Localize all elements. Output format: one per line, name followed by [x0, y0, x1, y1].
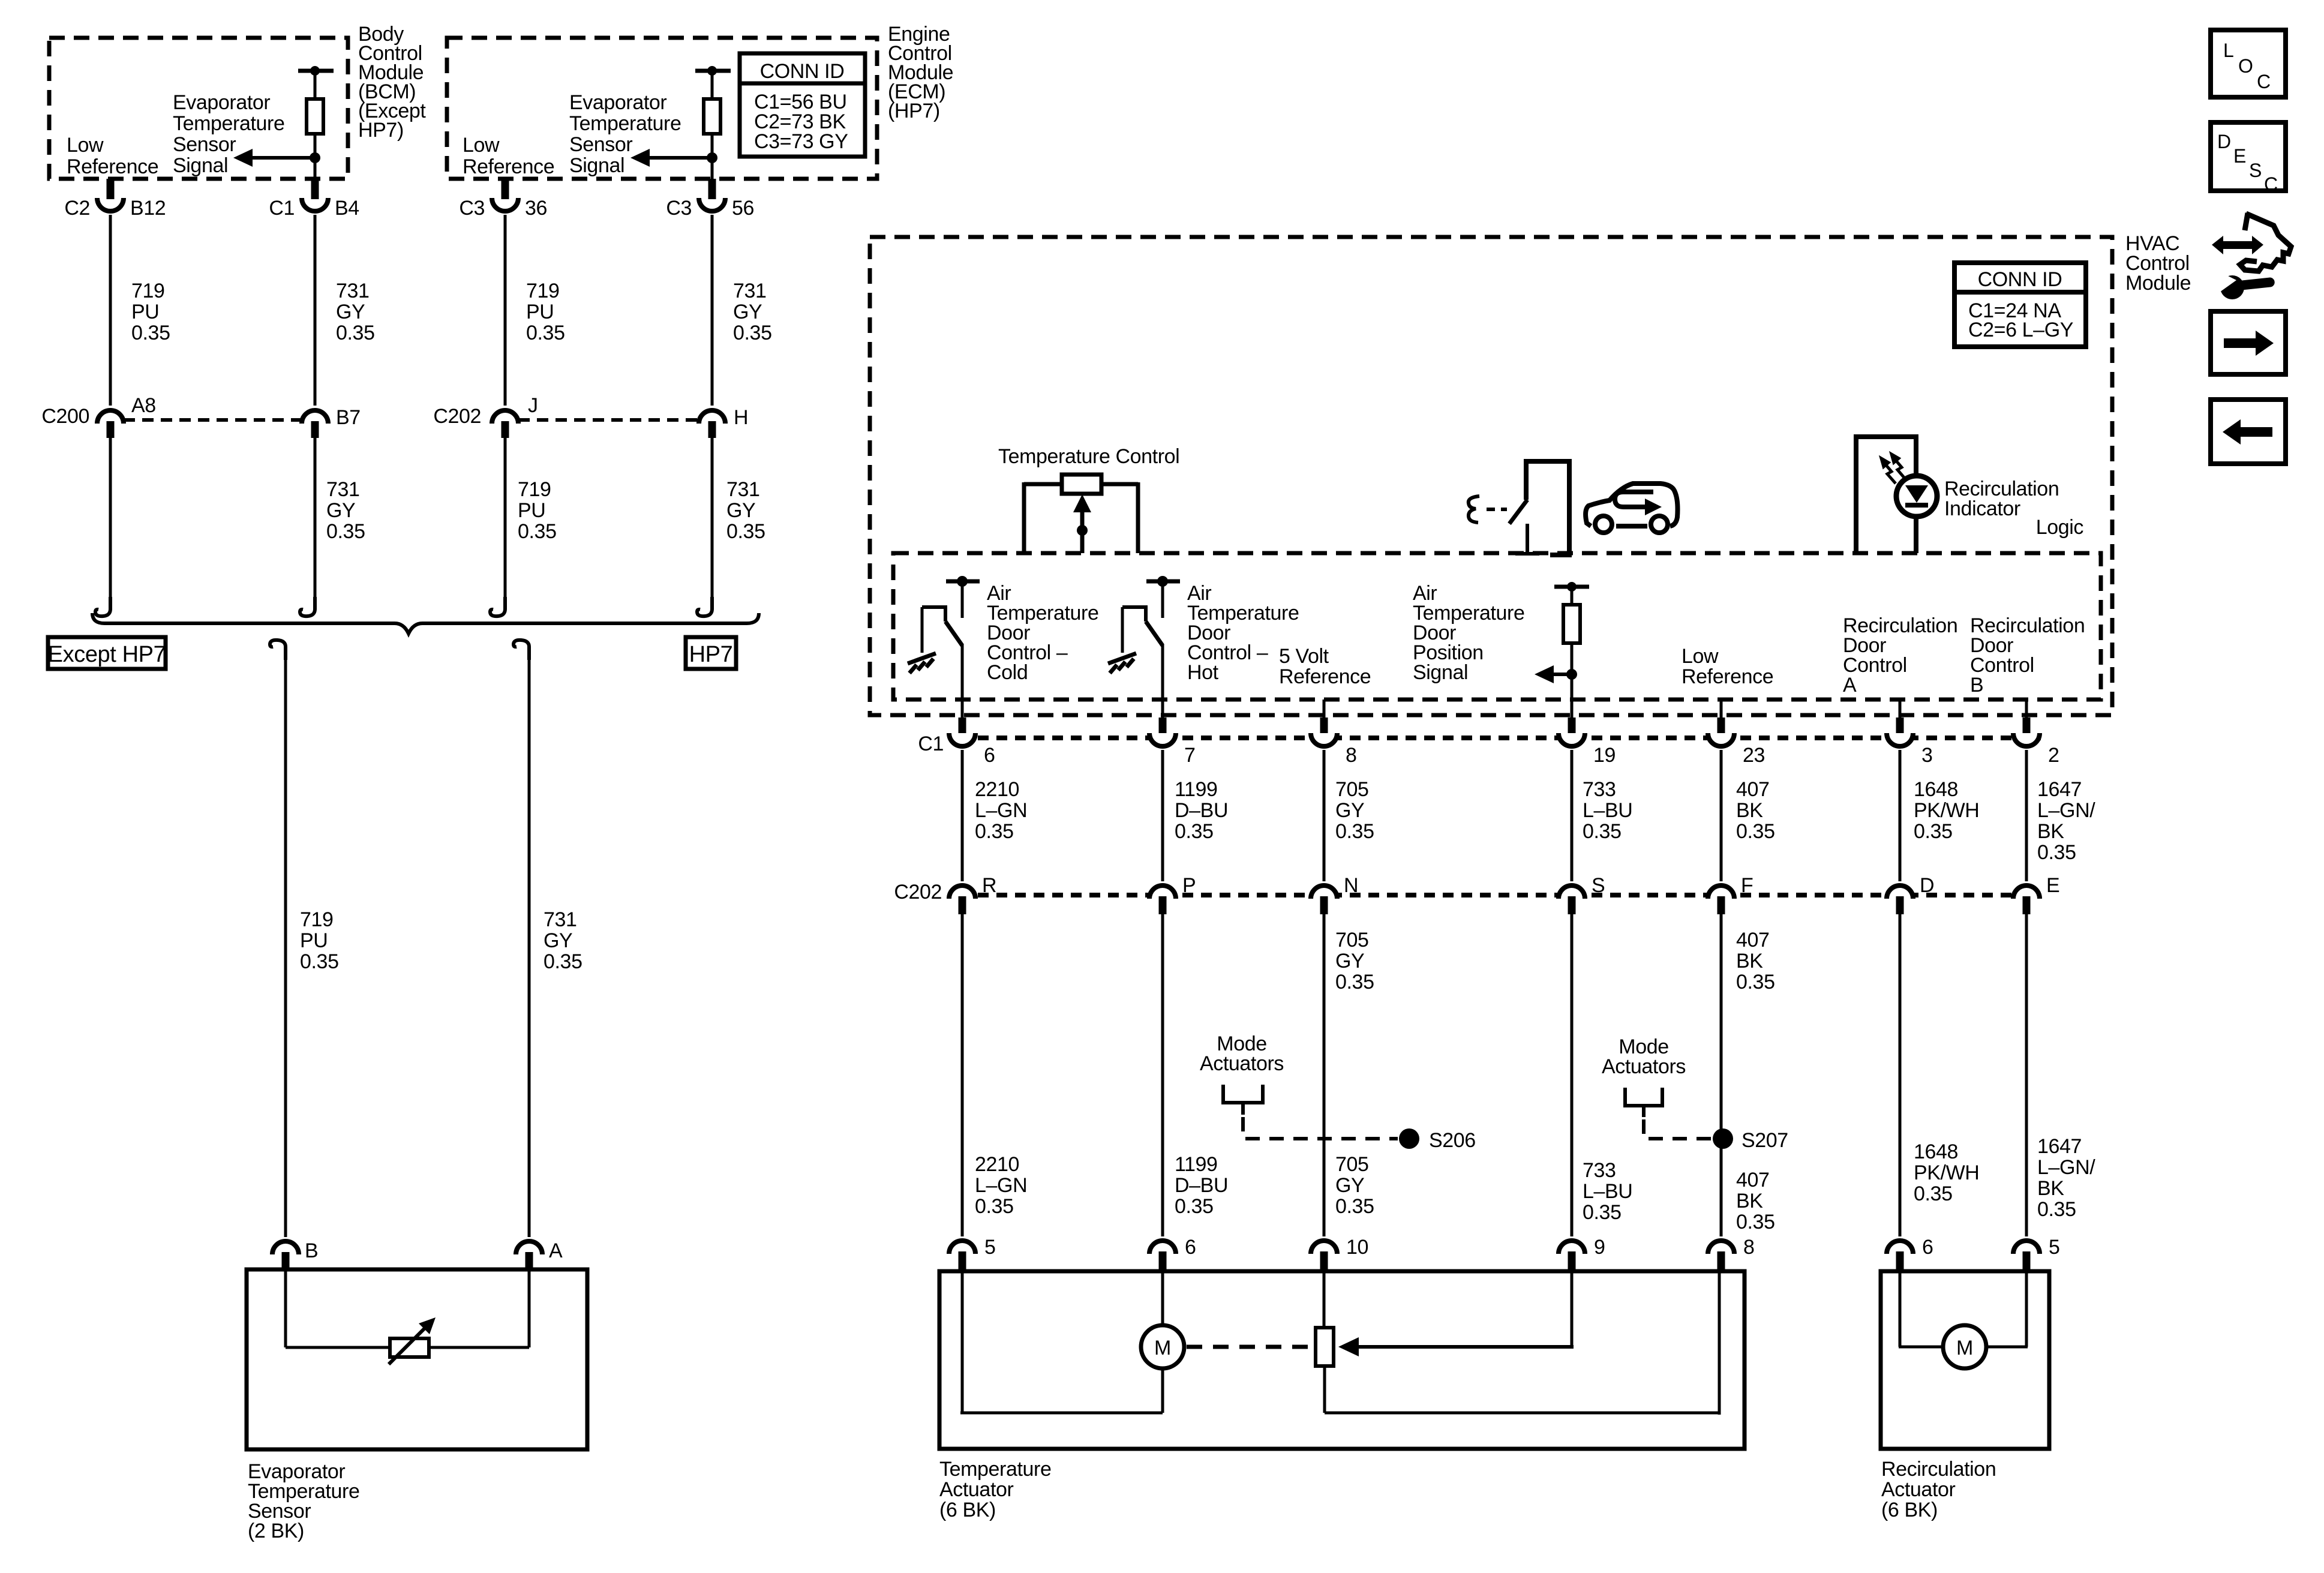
- air temp door control cold switch pole wire to pin: [961, 644, 964, 718]
- svg-text:8: 8: [1743, 1236, 1755, 1259]
- wire start hook (sensor B wire): [270, 640, 286, 660]
- wire temp actuator pin6 to motor: [1161, 1271, 1164, 1325]
- connector C202 pin P: [1149, 885, 1176, 899]
- air temp door control hot switch ground: [1108, 653, 1136, 673]
- connector actuator pin 6: [1887, 1241, 1913, 1254]
- air temp door control hot switch pole wire to pin: [1161, 644, 1164, 718]
- svg-text:5: 5: [2049, 1236, 2060, 1259]
- wire position signal lower lead: [1571, 643, 1574, 718]
- motor M (recirculation actuator): [1943, 1325, 1986, 1368]
- wire from C1 pin 7 to C202: [1161, 750, 1164, 881]
- stub above HVAC C1 pin 6: [959, 718, 966, 733]
- svg-text:Actuators: Actuators: [1602, 1055, 1686, 1078]
- svg-text:B7: B7: [336, 406, 361, 429]
- brace joining Except-HP7 and HP7 wire groups: [92, 613, 759, 634]
- wire 731 GY segment (56 to C202 H): [711, 215, 714, 406]
- connector pin B of sensor: [272, 1241, 299, 1254]
- connector actuator pin 5: [949, 1241, 975, 1254]
- stub below C200/C202 pin B7: [311, 421, 319, 438]
- car icon arrow head: [1645, 499, 1662, 515]
- wire from C1 pin 19 to C202: [1571, 750, 1574, 881]
- air temp door control hot switch fixed contact stem: [1161, 581, 1164, 618]
- air temp door control cold switch ground branch: [921, 607, 924, 653]
- svg-text:S: S: [1592, 874, 1605, 897]
- wire recirc door control A stub: [1899, 700, 1902, 718]
- potentiometer body (Temperature Control): [1062, 475, 1101, 494]
- stub below actuator pin 9: [1568, 1251, 1576, 1271]
- push-button spring symbol: [1469, 496, 1479, 523]
- svg-text:C1: C1: [918, 733, 944, 755]
- wire inside sensor from pin A: [528, 1269, 531, 1347]
- svg-text:CONN ID: CONN ID: [1978, 268, 2062, 291]
- BCM signal junction dot: [310, 152, 320, 163]
- wire BCM resistor top lead: [314, 71, 317, 99]
- svg-text:6: 6: [984, 744, 995, 767]
- air temp door control cold switch blade: [945, 622, 962, 646]
- stub above HVAC C1 pin 3: [1896, 718, 1904, 733]
- svg-text:M: M: [1154, 1337, 1171, 1359]
- svg-text:Logic: Logic: [2036, 516, 2084, 539]
- push-button pole: [1515, 524, 1539, 554]
- svg-text:C202: C202: [433, 405, 481, 428]
- position signal top junction dot: [1567, 582, 1577, 592]
- LOC navigation box: [2211, 30, 2286, 97]
- connector C1 pin 23 (HVAC): [1708, 733, 1734, 746]
- BCM resistor top junction dot: [310, 66, 320, 76]
- svg-text:S206: S206: [1429, 1129, 1476, 1152]
- wire segment below C200 A8: [109, 438, 112, 600]
- svg-text:N: N: [1344, 874, 1358, 897]
- potentiometer wiper arrow: [1073, 494, 1091, 553]
- ECM CONN ID table box: [740, 53, 865, 157]
- ECM signal arrow (to Signal label): [630, 149, 712, 167]
- motor M (temperature actuator): [1141, 1325, 1184, 1368]
- wire from C1 pin 2 to C202: [2025, 750, 2028, 881]
- dashed tap to S207: [1644, 1119, 1712, 1139]
- svg-text:19: 19: [1593, 744, 1616, 767]
- wire from C202 pin N to actuator: [1323, 914, 1326, 1236]
- svg-text:R: R: [982, 874, 996, 897]
- C202 connector row dashed line: [978, 893, 2041, 897]
- wire from C1 pin 6 to C202: [961, 750, 964, 881]
- HP7 boxed label: [686, 637, 736, 669]
- feedback wiper arrow: [1338, 1337, 1574, 1356]
- feedback position sensor element: [1316, 1328, 1334, 1366]
- C202 (left) inline connector dashed line: [518, 418, 699, 422]
- svg-text:S207: S207: [1742, 1129, 1788, 1152]
- svg-text:F: F: [1741, 874, 1753, 897]
- wire recirc actuator to motor left: [1899, 1346, 1944, 1349]
- wire temp actuator pin10 to feedback: [1323, 1271, 1326, 1328]
- stub above connector C3 pin 56 (ECM signal): [708, 179, 716, 199]
- diagnostic tool icon: wrench: [2210, 271, 2275, 299]
- mode actuators bracket 2: [1625, 1088, 1662, 1117]
- wire 731 GY to sensor pin A: [528, 660, 531, 1237]
- connector C1 pin 19 (HVAC): [1559, 733, 1585, 746]
- svg-text:D: D: [1920, 874, 1934, 897]
- recirculation indicator LED frame: [1856, 437, 1916, 553]
- connector C1 pin 2 (HVAC): [2013, 733, 2040, 746]
- stub below C200/C202 pin A8: [107, 421, 115, 438]
- air temp door control cold switch fixed contact stem: [961, 581, 964, 618]
- svg-text:E: E: [2046, 874, 2059, 897]
- splice S206: [1399, 1128, 1419, 1149]
- Body Control Module (BCM) dashed box: [49, 38, 348, 179]
- wire temp actuator pin9 drop: [1571, 1271, 1574, 1347]
- connector C3 pin 36 (ECM low reference): [492, 198, 518, 211]
- stub above connector C1 pin B4 (BCM signal): [311, 179, 319, 199]
- svg-text:10: 10: [1346, 1236, 1368, 1259]
- stub below actuator pin 10: [1320, 1251, 1328, 1271]
- svg-text:C1=56 BUC2=73 BKC3=73 GY: C1=56 BUC2=73 BKC3=73 GY: [754, 91, 848, 153]
- connector C202 pin N: [1311, 885, 1337, 899]
- wire from C1 pin 8 to C202: [1323, 750, 1326, 881]
- svg-text:CONN ID: CONN ID: [760, 60, 845, 83]
- svg-text:H: H: [734, 406, 748, 429]
- BCM resistor top bar: [298, 69, 334, 73]
- svg-text:7: 7: [1184, 744, 1196, 767]
- wire end hook below A8: [95, 597, 110, 616]
- Temperature Actuator box: [939, 1271, 1744, 1449]
- connector actuator pin 10: [1311, 1241, 1337, 1254]
- stub below actuator pin 6: [1159, 1251, 1167, 1271]
- air temp door control hot switch blade: [1146, 622, 1163, 646]
- connector C202 pin F: [1708, 885, 1734, 899]
- svg-text:C200: C200: [41, 405, 89, 428]
- stub below sensor pin B: [282, 1252, 290, 1269]
- connector C3 pin 56 (ECM signal): [699, 198, 725, 211]
- Recirculation Actuator box: [1881, 1271, 2049, 1449]
- wire inside sensor from pin B: [284, 1269, 287, 1347]
- svg-text:Temperature Control: Temperature Control: [998, 445, 1179, 468]
- connector C202 pin S: [1559, 885, 1585, 899]
- svg-text:5: 5: [984, 1236, 996, 1259]
- connector actuator pin 6: [1149, 1241, 1176, 1254]
- svg-text:P: P: [1182, 874, 1196, 897]
- air temp door control hot switch junction dot: [1157, 576, 1168, 587]
- ECM signal junction dot: [707, 152, 717, 163]
- dashed tap to S206: [1243, 1117, 1398, 1139]
- wire recirc actuator pin5 drop: [2025, 1271, 2028, 1347]
- wire sensor internal left: [286, 1346, 391, 1349]
- wiper junction dot: [1077, 525, 1088, 536]
- connector actuator pin 5: [2013, 1241, 2040, 1254]
- Logic dashed box: [893, 553, 2101, 700]
- connector C1 pin 6 (HVAC): [949, 733, 975, 746]
- stub above HVAC C1 pin 23: [1718, 718, 1725, 733]
- svg-text:J: J: [528, 394, 538, 417]
- Except HP7 boxed label: [48, 637, 166, 669]
- wire temp actuator pin5 drop: [961, 1271, 964, 1413]
- thermistor diagonal arrow: [389, 1317, 436, 1364]
- air temp door control cold switch contact hook: [922, 607, 945, 622]
- svg-text:O: O: [2238, 55, 2253, 77]
- wire feedback lower lead: [1323, 1366, 1326, 1413]
- wire from C1 pin 23 to C202: [1720, 750, 1723, 881]
- connector C202 pin E: [2013, 885, 2040, 899]
- connector C202 pin D: [1887, 885, 1913, 899]
- svg-text:6: 6: [1185, 1236, 1196, 1259]
- splice S207: [1713, 1128, 1733, 1149]
- svg-text:C: C: [2257, 71, 2271, 92]
- svg-text:B4: B4: [335, 197, 359, 220]
- stub below actuator pin 5: [2023, 1251, 2031, 1271]
- stub above HVAC C1 pin 7: [1159, 718, 1167, 733]
- HVAC Control Module dashed box: [870, 237, 2112, 715]
- stub below C202 pin P: [1159, 896, 1167, 914]
- wire ECM signal to box edge: [711, 158, 714, 180]
- connector actuator pin 9: [1559, 1241, 1585, 1254]
- air temp door control hot switch contact hook: [1122, 607, 1146, 622]
- svg-text:B12: B12: [130, 197, 166, 220]
- wire recirc actuator motor right: [1986, 1346, 2028, 1349]
- svg-text:HP7: HP7: [689, 642, 733, 667]
- svg-text:6: 6: [1922, 1236, 1933, 1259]
- mode actuators bracket 1: [1223, 1085, 1263, 1115]
- BCM signal arrow (to Signal label): [233, 149, 315, 167]
- wire from C202 pin P to actuator: [1161, 914, 1164, 1236]
- temperature control pot bar left: [1024, 482, 1064, 487]
- svg-text:2: 2: [2048, 744, 2059, 767]
- air temp door control cold switch junction dot: [957, 576, 968, 587]
- wire from C202 pin D to actuator: [1899, 914, 1902, 1236]
- position signal junction dot: [1566, 669, 1577, 680]
- stub below actuator pin 5: [959, 1251, 966, 1271]
- wire from C1 pin 3 to C202: [1899, 750, 1902, 881]
- wire end hook below H: [697, 597, 712, 616]
- wire motor ground stem: [1161, 1368, 1164, 1413]
- stub below C202 pin R: [959, 896, 966, 914]
- ECM resistor top junction dot: [707, 66, 717, 76]
- wire position signal top lead: [1571, 587, 1574, 605]
- wire temp actuator pin8 rise: [1718, 1271, 1721, 1415]
- resistor BCM evaporator temp sensor pull-up: [307, 99, 323, 134]
- wire ECM resistor bottom lead: [711, 134, 714, 158]
- diagnostic tool icon: double arrow: [2212, 236, 2263, 254]
- stub below actuator pin 8: [1718, 1251, 1725, 1271]
- wire low reference stub in module: [1720, 700, 1723, 718]
- wire BCM signal to box edge: [314, 158, 317, 180]
- C200 inline connector dashed line: [124, 418, 302, 422]
- HVAC CONN ID table box: [1954, 263, 2086, 347]
- connector actuator pin 8: [1708, 1241, 1734, 1254]
- connector C2 pin B12 (BCM low reference): [97, 198, 124, 211]
- svg-text:C3: C3: [459, 197, 485, 220]
- forward arrow box: [2211, 311, 2286, 374]
- wire 719 PU to sensor pin B: [284, 660, 287, 1237]
- temperature control right leg: [1136, 482, 1140, 553]
- LED cathode bar: [1905, 503, 1928, 508]
- diagnostic tool icon: outline pointer: [2240, 213, 2291, 271]
- temperature control pot bar right: [1100, 482, 1138, 487]
- connector C202 pin H dome: [699, 410, 725, 424]
- air temp door control hot switch ground branch: [1121, 607, 1124, 653]
- wire from C202 pin E to actuator: [2025, 914, 2028, 1236]
- svg-text:8: 8: [1346, 744, 1357, 767]
- push-button blade: [1509, 500, 1527, 524]
- stub below actuator pin 6: [1896, 1251, 1904, 1271]
- connector C202 pin J dome: [492, 410, 518, 424]
- wire 731 GY segment below H: [711, 438, 714, 600]
- svg-text:L: L: [2223, 40, 2234, 61]
- stub below C202 pin S: [1568, 896, 1576, 914]
- ECM resistor top bar: [695, 69, 731, 73]
- svg-text:56: 56: [732, 197, 754, 220]
- wire recirc door control B stub: [2025, 700, 2028, 718]
- svg-text:E: E: [2233, 145, 2246, 167]
- LED circle: [1896, 476, 1937, 517]
- connector C1 pin 8 (HVAC): [1311, 733, 1337, 746]
- connector C200 pin B7 dome: [302, 410, 328, 424]
- connector C200 pin A8 dome: [97, 410, 124, 424]
- svg-text:D: D: [2217, 131, 2231, 152]
- svg-text:C202: C202: [894, 881, 942, 903]
- stub below C200/C202 pin H: [708, 421, 716, 438]
- wire end hook below J: [490, 597, 505, 616]
- svg-text:9: 9: [1594, 1236, 1605, 1259]
- car (recirculation) icon: [1586, 484, 1677, 533]
- wire temp actuator bottom rail left: [960, 1412, 1163, 1415]
- svg-text:B: B: [305, 1239, 318, 1262]
- svg-text:C1=24 NAC2=6 L–GY: C1=24 NAC2=6 L–GY: [1968, 299, 2073, 341]
- connector C1 pin 3 (HVAC): [1887, 733, 1913, 746]
- stub above HVAC C1 pin 19: [1568, 718, 1576, 733]
- svg-text:3: 3: [1921, 744, 1933, 767]
- svg-text:23: 23: [1743, 744, 1765, 767]
- recirculation push-button switch body: [1526, 461, 1569, 555]
- stub below C202 pin D: [1896, 896, 1904, 914]
- svg-text:C3: C3: [666, 197, 692, 220]
- stub below C202 pin N: [1320, 896, 1328, 914]
- stub above HVAC C1 pin 8: [1320, 718, 1328, 733]
- wire 731 GY segment below B7: [314, 438, 317, 600]
- LED cathode wire: [1914, 516, 1918, 553]
- position signal top bar: [1554, 585, 1589, 589]
- wire from C202 pin R to actuator: [961, 914, 964, 1236]
- wire ECM resistor top lead: [711, 71, 714, 99]
- wire recirc actuator pin6 drop: [1899, 1271, 1902, 1347]
- svg-text:Actuators: Actuators: [1200, 1052, 1284, 1075]
- air temp door control cold switch ground: [908, 653, 936, 673]
- connector C202 pin R: [949, 885, 975, 899]
- LED light arrows: [1881, 454, 1904, 484]
- wire 719 PU segment (36 to C202 J): [504, 215, 507, 406]
- air temp door control hot switch top bar: [1146, 580, 1180, 584]
- stub below sensor pin A: [526, 1252, 533, 1269]
- resistor air temp door position: [1563, 605, 1580, 643]
- C1 connector row dashed line: [978, 736, 2041, 740]
- wire end hook below B7: [300, 597, 315, 616]
- wire temp actuator bottom rail right: [1325, 1412, 1719, 1415]
- resistor ECM evaporator temp sensor pull-up: [704, 99, 720, 134]
- wire from C202 pin S to actuator: [1571, 914, 1574, 1236]
- wire 719 PU segment below J: [504, 438, 507, 600]
- wire 719 PU segment (B12 to C200 A8): [109, 215, 112, 406]
- svg-text:Except HP7: Except HP7: [48, 642, 166, 667]
- wire start hook (sensor A wire): [514, 640, 529, 660]
- push-button mechanical link dashes: [1487, 508, 1507, 511]
- temperature control left leg: [1022, 482, 1026, 553]
- svg-text:36: 36: [525, 197, 547, 220]
- connector C1 pin 7 (HVAC): [1149, 733, 1176, 746]
- stub below C200/C202 pin J: [502, 421, 509, 438]
- Evaporator Temperature Sensor box: [247, 1269, 587, 1449]
- connector pin A of sensor: [516, 1241, 542, 1254]
- svg-text:C: C: [2264, 173, 2278, 195]
- wire 5V reference stub in module: [1323, 700, 1326, 718]
- svg-text:A8: A8: [131, 394, 156, 417]
- thermistor (variable resistor) in sensor: [390, 1338, 429, 1357]
- stub below C202 pin E: [2023, 896, 2031, 914]
- Engine Control Module (ECM) dashed box: [447, 38, 877, 179]
- stub above connector C3 pin 36 (ECM low reference): [502, 179, 509, 199]
- back arrow box: [2211, 400, 2286, 464]
- DESC navigation box: [2211, 122, 2286, 195]
- position signal arrow: [1535, 665, 1572, 683]
- svg-text:A: A: [549, 1239, 563, 1262]
- wire 731 GY segment (B4 to C200 B7): [314, 215, 317, 406]
- stub above HVAC C1 pin 2: [2023, 718, 2031, 733]
- stub above connector C2 pin B12 (BCM low reference): [107, 179, 115, 199]
- LED triangle: [1905, 485, 1928, 503]
- svg-text:C2: C2: [64, 197, 90, 220]
- stub below C202 pin F: [1718, 896, 1725, 914]
- svg-text:M: M: [1956, 1337, 1973, 1359]
- connector C1 pin B4 (BCM signal): [302, 198, 328, 211]
- wire BCM resistor bottom lead: [314, 134, 317, 158]
- air temp door control cold switch top bar: [946, 580, 980, 584]
- wire from C202 pin F to actuator: [1720, 914, 1723, 1236]
- svg-text:C1: C1: [269, 197, 295, 220]
- svg-text:S: S: [2249, 160, 2262, 181]
- mechanical dashed link motor to feedback pot: [1187, 1345, 1315, 1349]
- wire sensor internal right: [428, 1346, 529, 1349]
